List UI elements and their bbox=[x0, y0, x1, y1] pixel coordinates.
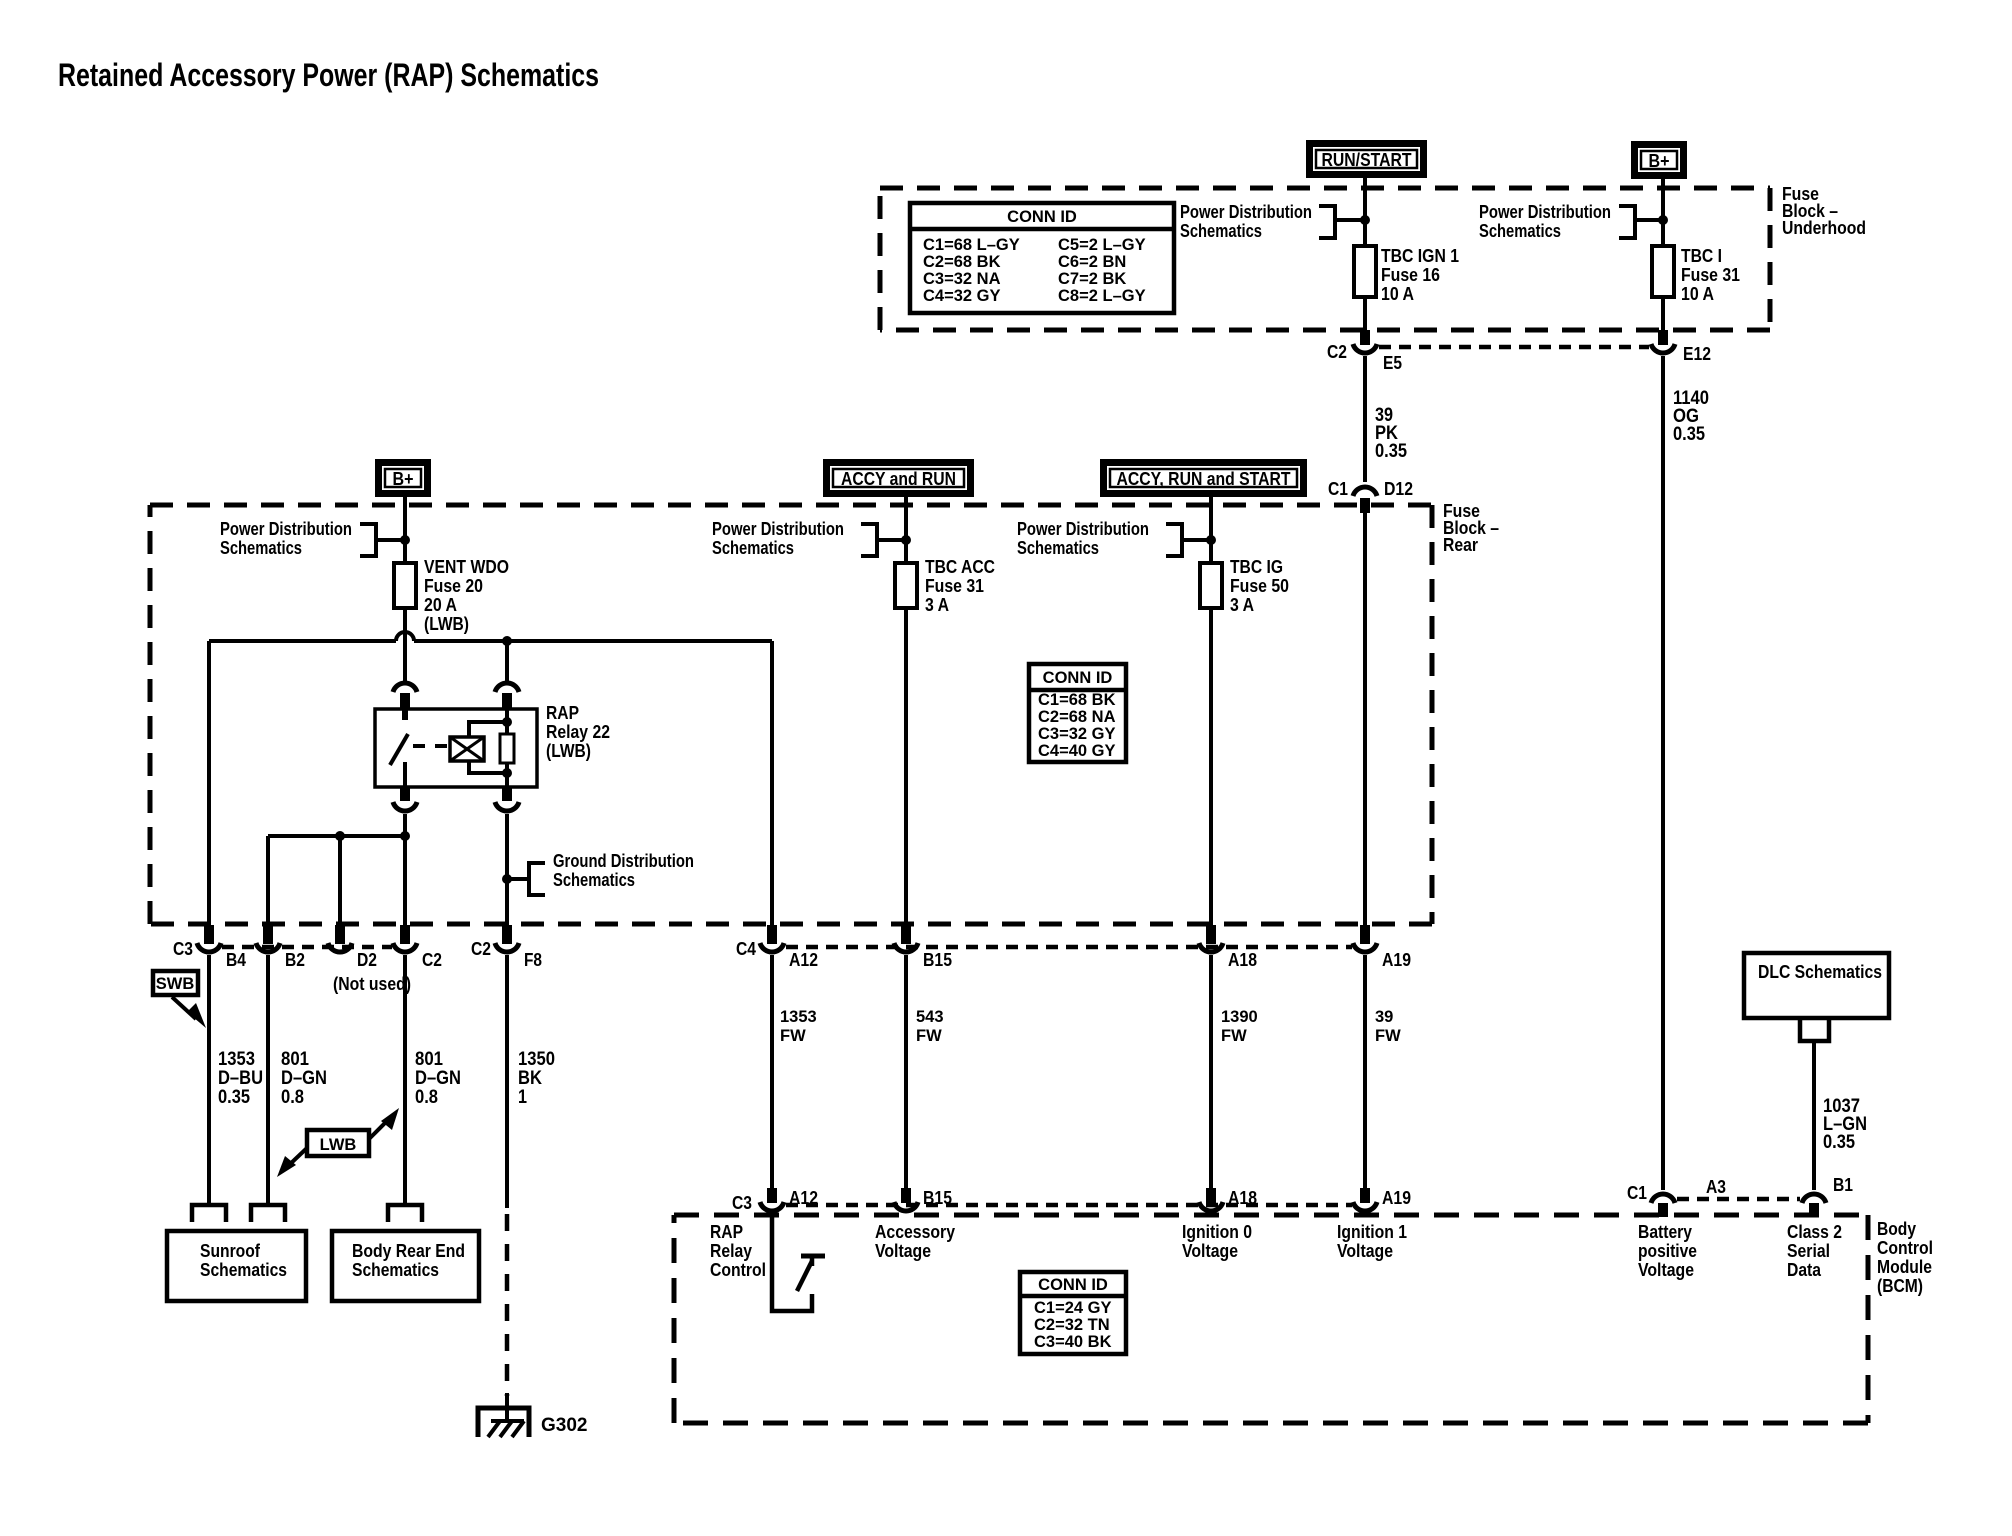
junction dot VENT bracket bbox=[400, 535, 410, 545]
junction dot branch D2 bbox=[335, 831, 345, 841]
svg-text:Power Distribution: Power Distribution bbox=[1479, 201, 1611, 222]
wire F8 dashed segment to ground bbox=[505, 1214, 510, 1396]
connector C2/E5 pin stub bbox=[1360, 330, 1370, 345]
wire bracket to IG wire bbox=[1182, 538, 1211, 542]
wire B2 to sunroof (801 D-GN) bbox=[266, 955, 270, 1205]
svg-text:Fuse 50: Fuse 50 bbox=[1230, 575, 1289, 596]
svg-text:1390: 1390 bbox=[1221, 1008, 1258, 1026]
junction dot coil top bbox=[502, 717, 512, 727]
bus wire hop over VENT wire bbox=[396, 632, 414, 641]
DLC tab bbox=[1800, 1018, 1829, 1041]
ground distribution reference bracket bbox=[529, 863, 545, 895]
wire relay down to C2 bbox=[403, 836, 407, 928]
relay coil top lead bbox=[469, 722, 507, 737]
svg-text:SWB: SWB bbox=[156, 975, 195, 993]
sunroof schematics box bbox=[167, 1231, 306, 1301]
relay resistor bbox=[500, 734, 514, 763]
svg-text:D12: D12 bbox=[1384, 478, 1413, 499]
svg-text:Body: Body bbox=[1877, 1218, 1917, 1239]
svg-text:A19: A19 bbox=[1382, 949, 1411, 970]
svg-text:Serial: Serial bbox=[1787, 1240, 1830, 1261]
SWB callout box bbox=[153, 971, 198, 995]
svg-text:LWB: LWB bbox=[320, 1136, 357, 1154]
wire fuse to connector C2 bbox=[1363, 297, 1367, 335]
svg-text:F8: F8 bbox=[524, 949, 542, 970]
branch wire horizontal bbox=[268, 834, 405, 838]
BCM connector C3/A12 stub bbox=[767, 1188, 777, 1203]
svg-text:C8=2 L–GY: C8=2 L–GY bbox=[1058, 287, 1146, 305]
svg-text:Underhood: Underhood bbox=[1782, 217, 1866, 238]
wire RUN/START to fuse TBC IGN 1 bbox=[1363, 178, 1367, 248]
svg-text:Module: Module bbox=[1877, 1256, 1932, 1277]
fuse TBC IGN 1 bbox=[1354, 246, 1376, 297]
BCM connector A19 cup bbox=[1353, 1202, 1377, 1211]
svg-text:B2: B2 bbox=[285, 949, 305, 970]
relay top-left connector stub bbox=[400, 693, 410, 710]
svg-text:C1: C1 bbox=[1627, 1182, 1647, 1203]
svg-text:C2=68 BK: C2=68 BK bbox=[923, 253, 1001, 271]
wire ACCY and RUN to TBC ACC fuse bbox=[904, 497, 908, 563]
wire TBC IG fuse to A18 connector bbox=[1209, 608, 1213, 928]
relay bottom-right connector cup bbox=[495, 802, 519, 811]
power tag ACCY and RUN bbox=[827, 463, 971, 494]
svg-text:543: 543 bbox=[916, 1008, 944, 1026]
wire D12 to A19 connector bbox=[1363, 512, 1367, 928]
body rear end schematics box bbox=[332, 1231, 479, 1301]
svg-text:Battery: Battery bbox=[1638, 1221, 1693, 1242]
connector C4/A12 stub bbox=[767, 925, 777, 944]
wire E5 to D12 (circuit 39 PK) bbox=[1363, 356, 1367, 482]
junction dot coil bottom bbox=[502, 768, 512, 778]
ground symbol G302 bbox=[478, 1408, 529, 1437]
svg-text:FW: FW bbox=[780, 1027, 806, 1045]
dotted connector line C3-C2 bbox=[222, 945, 392, 950]
connector C2 (body rear) cup bbox=[393, 943, 417, 952]
svg-text:C2=32 TN: C2=32 TN bbox=[1034, 1316, 1110, 1334]
svg-text:Voltage: Voltage bbox=[1638, 1259, 1694, 1280]
wire B+ to fuse TBC I bbox=[1661, 179, 1665, 248]
wire TBC ACC fuse to B15 connector bbox=[904, 608, 908, 928]
svg-text:Relay: Relay bbox=[710, 1240, 753, 1261]
power distribution reference bracket (ACC) bbox=[861, 524, 877, 556]
wire F8 solid segment (1350 BK) bbox=[505, 955, 509, 1208]
svg-text:RAP: RAP bbox=[546, 702, 579, 723]
connector E12 cup bbox=[1651, 344, 1675, 353]
svg-text:TBC IG: TBC IG bbox=[1230, 556, 1283, 577]
connector C3/B4 stub bbox=[204, 925, 214, 944]
wire bracket to IGN wire bbox=[1335, 218, 1365, 222]
wire C2 to body rear (801 D-GN) bbox=[403, 955, 407, 1205]
connector B2 stub bbox=[263, 925, 273, 944]
svg-text:Power Distribution: Power Distribution bbox=[1180, 201, 1312, 222]
svg-text:D2: D2 bbox=[357, 949, 377, 970]
relay top-right connector stub bbox=[502, 693, 512, 710]
connector C2/E5 cup bbox=[1353, 344, 1377, 353]
svg-text:(BCM): (BCM) bbox=[1877, 1275, 1923, 1296]
CONN ID table underhood bbox=[910, 203, 1174, 313]
svg-text:TBC ACC: TBC ACC bbox=[925, 556, 995, 577]
wire B15 feed (543 FW) bbox=[904, 955, 908, 1190]
svg-text:B1: B1 bbox=[1833, 1174, 1853, 1195]
wire to ground distribution bracket bbox=[507, 877, 529, 881]
junction dot TBC I bracket bbox=[1658, 215, 1668, 225]
dotted connector line A12-A19 (BCM) bbox=[786, 1203, 1352, 1208]
svg-text:C3=40 BK: C3=40 BK bbox=[1034, 1333, 1112, 1351]
connector C2/F8 cup bbox=[495, 943, 519, 952]
wire bracket to TBC I wire bbox=[1635, 218, 1663, 222]
LWB arrow lower bbox=[288, 1148, 307, 1166]
relay top-left connector cup bbox=[393, 683, 417, 692]
wire VENT fuse to bus bbox=[403, 608, 407, 641]
svg-text:CONN ID: CONN ID bbox=[1007, 208, 1077, 226]
svg-text:A18: A18 bbox=[1228, 949, 1257, 970]
svg-text:0.35: 0.35 bbox=[1673, 423, 1705, 445]
svg-text:3 A: 3 A bbox=[925, 594, 949, 615]
svg-text:CONN ID: CONN ID bbox=[1038, 1276, 1108, 1294]
wire A12 feed (1353 FW) bbox=[770, 955, 774, 1190]
sunroof tab B2 bbox=[251, 1205, 285, 1222]
svg-text:C1=68 L–GY: C1=68 L–GY bbox=[923, 236, 1020, 254]
sunroof tab B4 bbox=[192, 1205, 226, 1222]
wire E12 to BCM A3 (circuit 1140 OG) bbox=[1661, 356, 1665, 1190]
svg-text:39: 39 bbox=[1375, 1008, 1393, 1026]
svg-text:0.8: 0.8 bbox=[415, 1086, 438, 1108]
svg-text:Fuse 20: Fuse 20 bbox=[424, 575, 483, 596]
svg-text:ACCY, RUN and START: ACCY, RUN and START bbox=[1117, 468, 1292, 489]
svg-text:C2: C2 bbox=[1327, 341, 1347, 362]
svg-text:(LWB): (LWB) bbox=[424, 613, 469, 634]
connector E12 pin stub bbox=[1658, 330, 1668, 345]
junction dot bus/relay coil bbox=[502, 636, 512, 646]
wire DLC to B1 (1037 L-GN) bbox=[1812, 1041, 1816, 1190]
connector B15 cup bbox=[894, 943, 918, 952]
LWB arrow upper bbox=[369, 1120, 388, 1139]
connector C2 (body rear) stub bbox=[400, 925, 410, 944]
wire B4 to sunroof (1353 D-BU) bbox=[207, 955, 211, 1205]
svg-text:Schematics: Schematics bbox=[200, 1259, 287, 1280]
connector A18 stub bbox=[1206, 925, 1216, 944]
svg-text:C6=2 BN: C6=2 BN bbox=[1058, 253, 1126, 271]
svg-text:Control: Control bbox=[1877, 1237, 1933, 1258]
svg-text:10 A: 10 A bbox=[1681, 283, 1714, 304]
connector C4/A12 cup bbox=[760, 943, 784, 952]
wire bus down to C3/B4 bbox=[207, 641, 211, 928]
wire B+ to VENT WDO fuse bbox=[403, 497, 407, 563]
relay coil X stroke 1 bbox=[450, 737, 484, 761]
svg-text:Power Distribution: Power Distribution bbox=[712, 518, 844, 539]
svg-text:10 A: 10 A bbox=[1381, 283, 1414, 304]
BCM connector B1 cup bbox=[1802, 1194, 1826, 1203]
svg-text:(Not used): (Not used) bbox=[333, 973, 411, 994]
svg-text:C2: C2 bbox=[471, 938, 491, 959]
dotted connector line C2-E12 bbox=[1379, 345, 1649, 350]
svg-text:DLC Schematics: DLC Schematics bbox=[1758, 961, 1882, 982]
connector A19 cup bbox=[1353, 943, 1377, 952]
wire ACCY RUN START to TBC IG fuse bbox=[1209, 497, 1213, 563]
connector D2 (not used) stub bbox=[335, 925, 345, 944]
svg-text:Voltage: Voltage bbox=[875, 1240, 931, 1261]
svg-text:3 A: 3 A bbox=[1230, 594, 1254, 615]
svg-text:C3=32 NA: C3=32 NA bbox=[923, 270, 1001, 288]
power distribution reference bracket (TBC I) bbox=[1619, 206, 1635, 238]
svg-text:E5: E5 bbox=[1383, 352, 1402, 373]
relay coil bottom lead bbox=[469, 761, 507, 773]
relay actuator dashed link bbox=[413, 744, 450, 748]
svg-text:Control: Control bbox=[710, 1259, 766, 1280]
junction dot ACC bracket bbox=[901, 535, 911, 545]
svg-text:B+: B+ bbox=[1649, 150, 1670, 171]
BCM switch contact stub bbox=[810, 1256, 815, 1266]
svg-text:Sunroof: Sunroof bbox=[200, 1240, 261, 1261]
body rear end tab C2 bbox=[388, 1205, 422, 1222]
BCM connector A18 stub bbox=[1206, 1188, 1216, 1203]
svg-text:Data: Data bbox=[1787, 1259, 1822, 1280]
BCM connector B15 cup bbox=[894, 1202, 918, 1211]
BCM switch input wire bbox=[772, 1214, 812, 1311]
svg-text:Fuse 16: Fuse 16 bbox=[1381, 264, 1440, 285]
connector A18 cup bbox=[1199, 943, 1223, 952]
wire bus down to C4/A12 bbox=[770, 641, 774, 928]
DLC schematics box bbox=[1744, 953, 1889, 1018]
relay coil X stroke 2 bbox=[450, 737, 484, 761]
relay switch pin stub bbox=[402, 709, 408, 720]
junction dot branch main bbox=[400, 831, 410, 841]
power distribution reference bracket (IG) bbox=[1166, 524, 1182, 556]
svg-text:Class 2: Class 2 bbox=[1787, 1221, 1842, 1242]
BCM dashed box bbox=[674, 1213, 1868, 1218]
svg-text:1353: 1353 bbox=[780, 1008, 817, 1026]
BCM connector B1 stub bbox=[1809, 1203, 1819, 1217]
wire A18 feed (1390 FW) bbox=[1209, 955, 1213, 1190]
power tag RUN/START bbox=[1310, 144, 1424, 175]
wire relay to junction row bbox=[403, 814, 407, 836]
svg-text:Schematics: Schematics bbox=[352, 1259, 439, 1280]
svg-text:TBC I: TBC I bbox=[1681, 245, 1722, 266]
BCM connector B15 stub bbox=[901, 1188, 911, 1203]
bus wire horizontal bbox=[209, 639, 396, 643]
svg-text:Ignition 1: Ignition 1 bbox=[1337, 1221, 1407, 1242]
svg-text:B+: B+ bbox=[393, 468, 414, 489]
svg-text:G302: G302 bbox=[541, 1415, 587, 1436]
svg-text:A19: A19 bbox=[1382, 1187, 1411, 1208]
relay resistor lower lead bbox=[505, 763, 509, 787]
fuse VENT WDO bbox=[394, 563, 416, 608]
svg-text:Ignition 0: Ignition 0 bbox=[1182, 1221, 1252, 1242]
svg-text:C4=40 GY: C4=40 GY bbox=[1038, 742, 1116, 760]
svg-text:Accessory: Accessory bbox=[875, 1221, 956, 1242]
svg-text:C3: C3 bbox=[732, 1192, 752, 1213]
svg-text:RAP: RAP bbox=[710, 1221, 743, 1242]
svg-text:Voltage: Voltage bbox=[1337, 1240, 1393, 1261]
svg-text:A12: A12 bbox=[789, 949, 818, 970]
connector C2/F8 stub bbox=[502, 925, 512, 944]
svg-text:Power Distribution: Power Distribution bbox=[220, 518, 352, 539]
BCM connector C1/A3 cup bbox=[1651, 1194, 1675, 1203]
LWB callout box bbox=[307, 1130, 369, 1156]
svg-text:TBC IGN 1: TBC IGN 1 bbox=[1381, 245, 1459, 266]
svg-text:Body Rear End: Body Rear End bbox=[352, 1240, 465, 1261]
power tag ACCY, RUN and START bbox=[1104, 463, 1304, 494]
svg-text:C1: C1 bbox=[1328, 478, 1348, 499]
fuse TBC ACC bbox=[895, 563, 917, 608]
svg-text:Schematics: Schematics bbox=[1180, 220, 1262, 241]
relay bottom-right connector stub bbox=[502, 787, 512, 801]
svg-text:VENT WDO: VENT WDO bbox=[424, 556, 509, 577]
connector C1/D12 pin stub bbox=[1360, 498, 1370, 513]
svg-text:1: 1 bbox=[518, 1086, 527, 1108]
relay switch lower lead bbox=[403, 762, 407, 787]
relay RAP Relay 22 box bbox=[375, 709, 537, 787]
svg-text:C7=2 BK: C7=2 BK bbox=[1058, 270, 1126, 288]
wire bracket to ACC wire bbox=[877, 538, 906, 542]
svg-text:20 A: 20 A bbox=[424, 594, 457, 615]
svg-text:CONN ID: CONN ID bbox=[1043, 669, 1113, 687]
svg-text:Retained Accessory Power (RAP): Retained Accessory Power (RAP) Schematic… bbox=[58, 57, 599, 93]
wire branch down to D2 bbox=[338, 836, 342, 928]
svg-text:Fuse 31: Fuse 31 bbox=[925, 575, 984, 596]
CONN ID table BCM bbox=[1020, 1272, 1126, 1354]
power tag B+ (rear) bbox=[379, 463, 428, 494]
svg-text:B4: B4 bbox=[226, 949, 247, 970]
svg-text:Schematics: Schematics bbox=[1479, 220, 1561, 241]
svg-text:C5=2 L–GY: C5=2 L–GY bbox=[1058, 236, 1146, 254]
BCM connector C1/A3 stub bbox=[1658, 1203, 1668, 1217]
wire A19 feed (39 FW) bbox=[1363, 955, 1367, 1190]
svg-text:A3: A3 bbox=[1706, 1176, 1726, 1197]
relay coil/resistor vertical lead bbox=[505, 709, 509, 734]
relay top-right connector cup bbox=[495, 683, 519, 692]
CONN ID table rear bbox=[1029, 664, 1126, 762]
svg-text:FW: FW bbox=[916, 1027, 942, 1045]
SWB arrow bbox=[172, 997, 196, 1019]
svg-text:(LWB): (LWB) bbox=[546, 740, 591, 761]
svg-text:B15: B15 bbox=[923, 949, 952, 970]
svg-text:Power Distribution: Power Distribution bbox=[1017, 518, 1149, 539]
connector D2 (not used) cup bbox=[328, 943, 352, 952]
connector B2 cup bbox=[256, 943, 280, 952]
svg-text:RUN/START: RUN/START bbox=[1322, 149, 1413, 170]
svg-text:Ground Distribution: Ground Distribution bbox=[553, 850, 694, 871]
svg-text:Schematics: Schematics bbox=[553, 869, 635, 890]
relay bottom-left connector stub bbox=[400, 787, 410, 801]
svg-text:FW: FW bbox=[1375, 1027, 1401, 1045]
svg-text:C1=68 BK: C1=68 BK bbox=[1038, 691, 1116, 709]
svg-text:Schematics: Schematics bbox=[712, 537, 794, 558]
svg-text:C2=68 NA: C2=68 NA bbox=[1038, 708, 1116, 726]
BCM switch blade bbox=[797, 1261, 812, 1291]
wire bracket to VENT wire bbox=[376, 538, 405, 542]
connector C1/D12 cup bbox=[1353, 487, 1377, 496]
svg-text:Voltage: Voltage bbox=[1182, 1240, 1238, 1261]
wire ground stub bbox=[505, 1393, 509, 1421]
power tag B+ (underhood) bbox=[1635, 145, 1684, 176]
dotted connector line C4-A19 bbox=[786, 945, 1352, 950]
fuse block underhood dashed box bbox=[880, 186, 1770, 191]
connector B15 stub bbox=[901, 925, 911, 944]
dotted connector line A3-B1 bbox=[1677, 1197, 1800, 1202]
BCM connector A19 stub bbox=[1360, 1188, 1370, 1203]
junction dot ground distribution bbox=[502, 874, 512, 884]
power distribution reference bracket (VENT) bbox=[360, 524, 376, 556]
svg-text:0.35: 0.35 bbox=[1823, 1131, 1855, 1153]
svg-text:E12: E12 bbox=[1683, 343, 1711, 364]
wire bus down to relay coil pin bbox=[505, 641, 509, 681]
svg-text:Schematics: Schematics bbox=[220, 537, 302, 558]
svg-text:Rear: Rear bbox=[1443, 534, 1478, 555]
svg-text:Fuse 31: Fuse 31 bbox=[1681, 264, 1740, 285]
relay coil box bbox=[450, 737, 484, 761]
svg-text:0.8: 0.8 bbox=[281, 1086, 304, 1108]
BCM switch contact bar bbox=[801, 1254, 825, 1259]
svg-text:C2: C2 bbox=[422, 949, 442, 970]
svg-text:Relay 22: Relay 22 bbox=[546, 721, 610, 742]
fuse block rear dashed box bbox=[150, 503, 1432, 508]
wire fuse TBC I to connector E12 bbox=[1661, 297, 1665, 335]
fuse TBC I bbox=[1652, 246, 1674, 297]
power distribution reference bracket (IGN) bbox=[1319, 206, 1335, 238]
bus wire horizontal right bbox=[414, 639, 772, 643]
BCM connector C3/A12 cup bbox=[760, 1202, 784, 1211]
wire VENT bus to relay pin bbox=[403, 641, 407, 681]
svg-text:0.35: 0.35 bbox=[218, 1086, 250, 1108]
wire branch down to B2 bbox=[266, 836, 270, 928]
svg-text:positive: positive bbox=[1638, 1240, 1697, 1261]
connector C3/B4 cup bbox=[197, 943, 221, 952]
connector A19 stub bbox=[1360, 925, 1370, 944]
svg-text:ACCY and RUN: ACCY and RUN bbox=[841, 468, 956, 489]
svg-text:C4: C4 bbox=[736, 938, 757, 959]
svg-text:Schematics: Schematics bbox=[1017, 537, 1099, 558]
fuse TBC IG bbox=[1200, 563, 1222, 608]
svg-text:C1=24 GY: C1=24 GY bbox=[1034, 1299, 1112, 1317]
svg-text:FW: FW bbox=[1221, 1027, 1247, 1045]
svg-text:C3: C3 bbox=[173, 938, 193, 959]
BCM connector A18 cup bbox=[1199, 1202, 1223, 1211]
svg-text:C4=32 GY: C4=32 GY bbox=[923, 287, 1001, 305]
junction dot IGN bracket bbox=[1360, 215, 1370, 225]
wire relay coil to ground junction bbox=[505, 814, 509, 928]
svg-text:C3=32 GY: C3=32 GY bbox=[1038, 725, 1116, 743]
relay bottom-left connector cup bbox=[393, 802, 417, 811]
junction dot IG bracket bbox=[1206, 535, 1216, 545]
svg-text:0.35: 0.35 bbox=[1375, 440, 1407, 462]
relay switch blade bbox=[390, 734, 408, 765]
